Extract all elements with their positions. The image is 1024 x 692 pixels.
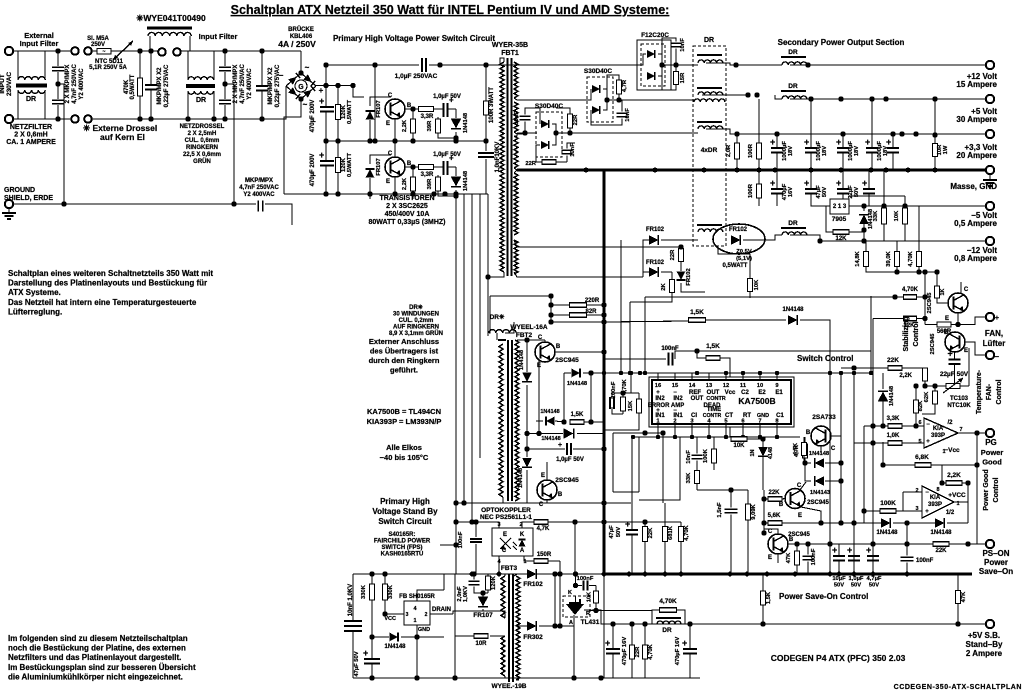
wire pin12 — [725, 373, 727, 379]
junction — [350, 83, 355, 88]
junction — [548, 302, 553, 307]
capacitor X1 — [52, 67, 64, 70]
diode S30D40C a2 — [541, 141, 549, 149]
wire op1 out — [958, 432, 977, 434]
wire — [384, 574, 386, 584]
wire tl out — [596, 610, 652, 612]
junction — [588, 419, 593, 424]
wire — [325, 166, 327, 194]
wire y373 — [604, 372, 871, 374]
junction — [392, 191, 397, 196]
wire +12 rail — [790, 64, 986, 66]
svg-text:Power: Power — [981, 448, 1004, 457]
svg-text:18V: 18V — [822, 146, 828, 156]
wire — [57, 51, 59, 66]
junction — [392, 138, 397, 143]
wire x444 to 573 — [443, 574, 445, 590]
netzdrossel winding top — [188, 77, 214, 80]
svg-text:0,5WATT: 0,5WATT — [723, 263, 748, 269]
wire FPS pin4 — [417, 590, 444, 601]
svg-text:2: 2 — [673, 419, 676, 425]
junction — [483, 138, 488, 143]
wire — [224, 72, 226, 84]
svg-text:FR107: FR107 — [376, 158, 382, 175]
wire 2K down — [630, 293, 672, 303]
junction GND bus — [809, 168, 814, 173]
svg-text:+5V S.B.: +5V S.B. — [968, 631, 1000, 640]
wire 100nF ic top — [611, 393, 613, 399]
wire — [842, 194, 844, 200]
wire 1,5K m out — [584, 421, 604, 423]
terminal N input — [5, 115, 13, 123]
junction — [728, 487, 733, 492]
capacitor Y 4,7nF — [258, 201, 263, 212]
resistor 33K ic — [695, 471, 700, 484]
svg-text:393P: 393P — [931, 433, 945, 439]
junction — [890, 131, 895, 136]
wire x645 v — [644, 297, 646, 373]
junction — [974, 462, 979, 467]
resistor 4,70K sb3 — [643, 645, 648, 659]
svg-text:1N4148: 1N4148 — [567, 381, 588, 387]
wire -5 rail — [860, 205, 986, 207]
capacitor 470uF 200V a — [319, 96, 334, 112]
choke DR winding bottom — [18, 90, 45, 93]
svg-text:DR: DR — [788, 220, 798, 227]
wire y297 — [645, 296, 904, 298]
svg-text:E: E — [503, 532, 507, 538]
capacitor 470uF 200V b — [319, 150, 334, 166]
svg-text:+: + — [836, 178, 841, 188]
svg-text:GND: GND — [418, 627, 430, 633]
svg-text:DR✳: DR✳ — [409, 304, 423, 311]
resistor 15K ic — [637, 399, 642, 413]
wire FBT3 p1 bot — [500, 611, 505, 618]
wire — [612, 654, 614, 678]
wire DRstar down — [496, 333, 498, 340]
svg-text:39R: 39R — [427, 120, 433, 131]
module F12C20C box — [637, 40, 671, 90]
junction — [838, 96, 843, 101]
FBT1 secondary winding b — [514, 102, 518, 132]
junction — [222, 116, 227, 121]
wire y351 — [697, 350, 871, 352]
wire tl a down — [573, 615, 575, 678]
wire — [55, 50, 70, 52]
svg-text:Stand–By: Stand–By — [966, 640, 1003, 649]
svg-text:+VCC: +VCC — [948, 492, 966, 499]
wire 12K in — [826, 206, 833, 232]
wire 100nF tl out — [589, 585, 596, 587]
junction — [414, 675, 419, 680]
wire cap r1 — [838, 544, 840, 555]
wire 10R in — [455, 635, 474, 637]
svg-text:39,0K: 39,0K — [886, 250, 892, 266]
junction — [561, 419, 566, 424]
wire tap +5 upper — [514, 98, 588, 100]
wire — [92, 50, 97, 52]
junction — [369, 675, 374, 680]
choke DR2 bar — [697, 87, 722, 89]
label Primary Stand By — [372, 497, 438, 526]
svg-text:+: + — [836, 137, 841, 147]
junction lower GND bus — [627, 572, 632, 577]
wire — [758, 99, 760, 143]
wire opto pin2 — [522, 522, 535, 528]
svg-text:des Übertragers ist: des Übertragers ist — [370, 347, 439, 356]
resistor 2,2K st — [923, 368, 928, 381]
svg-text:10µF: 10µF — [832, 576, 846, 582]
resistor 4,7K ob — [534, 520, 548, 525]
svg-text:+: + — [866, 545, 871, 555]
terminal -12V — [986, 237, 994, 245]
wire x873 up — [872, 319, 874, 374]
resistor 100R 3WATT — [484, 101, 489, 115]
wire 82K top — [915, 386, 917, 400]
junction GND bus — [884, 168, 889, 173]
wire — [438, 191, 456, 196]
wire m2 left down — [563, 373, 565, 422]
svg-text:100nF: 100nF — [458, 531, 464, 548]
svg-text:10R: 10R — [475, 641, 487, 647]
wire — [696, 437, 698, 454]
resistor 22R sb2 — [630, 645, 635, 659]
wire x864 v — [863, 426, 865, 523]
junction — [913, 383, 918, 388]
wire x632 v — [631, 437, 633, 527]
capacitor 100nF ic — [610, 397, 614, 409]
wire 1,5K psc top — [762, 574, 764, 591]
terminal FAN- — [986, 351, 994, 359]
wire 4,7K pa down — [803, 456, 805, 466]
svg-text:2,2K: 2,2K — [402, 119, 408, 132]
wire FBT3 s mid — [517, 625, 527, 627]
wire to PG term — [977, 432, 986, 434]
wire top rail right — [429, 64, 517, 66]
wire — [776, 134, 778, 147]
wire — [261, 51, 263, 86]
wire m1 down — [526, 385, 528, 434]
svg-text:Y2 400VAC: Y2 400VAC — [243, 192, 275, 198]
op-amp KIA393P 2 — [922, 486, 954, 518]
wire — [883, 224, 885, 230]
junction y373 — [695, 371, 699, 375]
junction — [827, 541, 832, 546]
wire — [485, 141, 487, 151]
capacitor X2 — [52, 100, 64, 103]
capacitor 1000uF 18V e — [886, 137, 899, 153]
svg-text:Y2 400VAC: Y2 400VAC — [247, 68, 253, 100]
svg-text:KA7500B = TL494CN: KA7500B = TL494CN — [367, 407, 441, 416]
label Power Good — [981, 448, 1004, 467]
svg-text:2 X 0,6mH: 2 X 0,6mH — [14, 132, 47, 139]
wire x455 down — [454, 574, 456, 678]
svg-text:+: + — [770, 178, 775, 188]
resistor 150R — [534, 559, 548, 564]
junction — [629, 621, 634, 626]
wire tap joint — [514, 134, 517, 136]
FBT1 secondary winding c — [514, 136, 518, 168]
capacitor 1000uF 18V b — [804, 137, 817, 153]
svg-text:KIA: KIA — [933, 426, 944, 432]
wire q2 emit — [777, 554, 779, 563]
wire — [437, 117, 439, 119]
wire 2,2K st out — [924, 381, 926, 386]
wire sn cap top — [473, 574, 475, 580]
wire — [13, 118, 55, 120]
svg-text:Control: Control — [993, 478, 1000, 503]
wire — [567, 143, 575, 149]
junction — [660, 430, 665, 435]
wire 2,2K fb — [941, 465, 943, 483]
resistor 4,7K ic — [803, 444, 808, 458]
choke DR2a — [698, 92, 723, 95]
terminal FAN+ — [986, 313, 994, 321]
resistor 9,09K — [746, 504, 751, 520]
wire — [213, 91, 215, 119]
wire — [664, 503, 666, 527]
svg-text:CUL. 0,6mm: CUL. 0,6mm — [185, 138, 220, 144]
svg-text:−: − — [995, 352, 1000, 361]
svg-text:E: E — [944, 330, 948, 336]
label NETZDROSSEL block — [180, 124, 225, 165]
wire 82K down — [915, 413, 917, 426]
wire — [776, 170, 778, 188]
wire 10K z top — [749, 254, 751, 279]
svg-text:12: 12 — [723, 383, 729, 389]
svg-text:IN1: IN1 — [673, 413, 683, 419]
module F12C20C inner — [641, 44, 665, 86]
junction lower GND bus — [470, 572, 475, 577]
svg-text:+: + — [865, 137, 870, 147]
wire — [675, 65, 677, 72]
junction — [870, 423, 875, 428]
transistor 2SC945 q2 — [768, 534, 788, 554]
junction — [598, 675, 603, 680]
wire — [525, 108, 540, 124]
svg-text:Power Save-On Control: Power Save-On Control — [779, 592, 868, 601]
svg-text:33K: 33K — [873, 210, 879, 221]
wire opto pin4 — [498, 556, 500, 574]
label DR star note — [389, 304, 443, 337]
capacitor 47uF 50V fps — [363, 648, 380, 664]
ground Masse symbol — [983, 175, 997, 186]
svg-text:K: K — [568, 590, 572, 596]
svg-text:Switch Circuit: Switch Circuit — [378, 517, 432, 526]
resistor 39,0K — [895, 252, 900, 267]
svg-text:FAN,: FAN, — [985, 329, 1003, 338]
capacitor X3 — [219, 67, 231, 70]
svg-text:C: C — [964, 287, 969, 293]
resistor 47K q — [795, 551, 800, 565]
junction y437 — [741, 435, 745, 439]
svg-text:6,8K: 6,8K — [915, 454, 929, 461]
wire 100nF in — [604, 358, 666, 360]
label IC equivalents — [367, 407, 442, 426]
junction — [593, 608, 598, 613]
choke DR3 bar — [697, 121, 722, 123]
wire top rail left — [326, 64, 419, 66]
svg-text:2,2K: 2,2K — [947, 472, 961, 479]
wire — [475, 522, 477, 537]
wire vertical bus d — [479, 194, 481, 458]
junction — [372, 138, 377, 143]
svg-text:Stabilizing: Stabilizing — [903, 317, 910, 352]
junction lower GND bus — [905, 572, 910, 577]
svg-text:CONTR: CONTR — [706, 396, 726, 402]
wire m1 top — [526, 340, 528, 372]
wire 100R bottom — [485, 115, 487, 141]
svg-text:~: ~ — [305, 63, 310, 72]
wire — [883, 230, 885, 241]
wire — [412, 167, 414, 177]
svg-text:1K: 1K — [940, 288, 946, 295]
junction — [628, 371, 632, 375]
wire FBT2 bottom out — [456, 497, 503, 503]
wire 100nF ic bot — [612, 407, 623, 414]
diode F12C20C 1 — [647, 50, 655, 58]
capacitor 10nF a — [520, 116, 531, 119]
optocoupler diode — [518, 540, 525, 547]
svg-text:100R: 100R — [748, 143, 754, 158]
junction — [861, 227, 866, 232]
terminal J2a — [71, 115, 79, 123]
wire — [631, 535, 633, 574]
junction y373 — [758, 371, 762, 375]
wire -12 in — [643, 240, 649, 277]
wire opto right v — [574, 522, 576, 574]
resistor 4,70K ic — [621, 397, 626, 411]
svg-text:30 Ampere: 30 Ampere — [956, 115, 997, 124]
label Externer Anschluss — [369, 337, 440, 375]
wire — [337, 173, 339, 195]
diode 1N4148 pg1 — [881, 518, 890, 528]
svg-text:1: 1 — [413, 618, 416, 624]
wire 10R top — [934, 99, 936, 144]
svg-text:Im folgenden sind zu diesem Ne: Im folgenden sind zu diesem Netzteilscha… — [8, 634, 188, 643]
junction — [808, 96, 813, 101]
junction — [367, 191, 372, 196]
svg-text:+: + — [449, 96, 454, 105]
module S30D40C b — [587, 77, 613, 122]
wire pin14 — [691, 373, 693, 379]
svg-text:Im Bestückungsplan sind zur be: Im Bestückungsplan sind zur besseren Übe… — [8, 663, 196, 672]
capacitor 1,5nF — [725, 509, 738, 512]
junction — [335, 83, 340, 88]
wire x639 v — [638, 437, 640, 492]
svg-text:+: + — [804, 178, 809, 188]
svg-text:Switch Control: Switch Control — [797, 354, 853, 363]
junction — [548, 312, 553, 317]
wire tap aux1 — [514, 240, 681, 247]
junction — [932, 383, 937, 388]
svg-text:MKP/MPX X2: MKP/MPX X2 — [268, 67, 274, 105]
svg-text:+: + — [925, 509, 929, 515]
FBT3 primary winding b — [501, 636, 505, 676]
wire 220R left join — [550, 296, 552, 322]
wire — [883, 170, 885, 208]
wire bridge ac top — [300, 51, 302, 73]
wire — [371, 574, 373, 584]
label TRANSISTOREN — [368, 195, 445, 226]
wire pg link — [902, 492, 904, 511]
wire y573 left — [353, 573, 456, 575]
wire — [455, 109, 457, 118]
wire q1 base — [782, 498, 785, 501]
svg-text:Alle Elkos: Alle Elkos — [386, 443, 422, 452]
wire 220R out — [587, 304, 604, 306]
junction — [642, 430, 647, 435]
junction — [536, 431, 541, 436]
capacitor 10nF c — [617, 113, 628, 116]
svg-text:Save–On: Save–On — [979, 567, 1013, 576]
junction — [761, 530, 766, 535]
FBT2 primary winding — [499, 344, 503, 497]
junction — [892, 294, 897, 299]
svg-text:10K: 10K — [754, 279, 760, 290]
diode 1N4148 st — [878, 391, 888, 401]
wire vertical bus e — [487, 194, 489, 336]
diode 1N4148 m6 — [522, 458, 532, 467]
resistor 100R b — [757, 184, 762, 198]
junction — [838, 478, 843, 483]
wire x630 v — [629, 302, 631, 373]
junction — [259, 116, 264, 121]
capacitor 1000uF 18V a — [770, 137, 783, 153]
diode FR302 — [527, 621, 536, 631]
svg-text:CONTR: CONTR — [703, 413, 722, 419]
wire — [680, 542, 682, 575]
svg-text:Control: Control — [913, 322, 920, 347]
resistor 47K psb — [956, 591, 961, 604]
wire 22K st out — [902, 367, 925, 369]
svg-text:20 Ampere: 20 Ampere — [956, 151, 997, 160]
svg-text:Temperature-: Temperature- — [976, 369, 983, 414]
wire — [954, 365, 956, 384]
svg-text:22,5 X 0,6mm: 22,5 X 0,6mm — [183, 152, 221, 158]
resistor 82K — [914, 400, 919, 413]
wire FR107 top — [482, 593, 484, 597]
svg-text:0,5WATT: 0,5WATT — [347, 153, 353, 178]
svg-text:Lüfter: Lüfter — [983, 339, 1006, 348]
FBT2 top bar — [498, 339, 506, 341]
wire FBT3 p1 top — [504, 574, 506, 576]
svg-text:TL431: TL431 — [581, 619, 600, 626]
junction — [883, 96, 888, 101]
wire — [904, 230, 906, 241]
wire — [906, 523, 908, 556]
junction — [452, 675, 457, 680]
diode FR102 a — [649, 235, 658, 245]
junction — [934, 269, 939, 274]
svg-text:3,3R: 3,3R — [421, 114, 434, 120]
svg-text:4,7K: 4,7K — [793, 442, 799, 455]
wire X mid to shield — [58, 84, 64, 204]
optocoupler transistor — [500, 538, 511, 550]
wire 4,70K f top — [918, 206, 920, 252]
resistor 4,70K g — [904, 295, 917, 300]
svg-text:4A / 250V: 4A / 250V — [278, 39, 316, 49]
junction GND bus — [735, 168, 740, 173]
junction — [55, 48, 60, 53]
label OPTOKOPPLER — [480, 507, 532, 521]
label +5 Volt — [956, 107, 997, 124]
svg-text:330K: 330K — [388, 584, 394, 599]
wire diode1 in — [805, 462, 811, 464]
wire diode pair out1 — [825, 462, 841, 464]
svg-text:−: − — [926, 422, 930, 428]
svg-text:22R: 22R — [670, 249, 676, 260]
